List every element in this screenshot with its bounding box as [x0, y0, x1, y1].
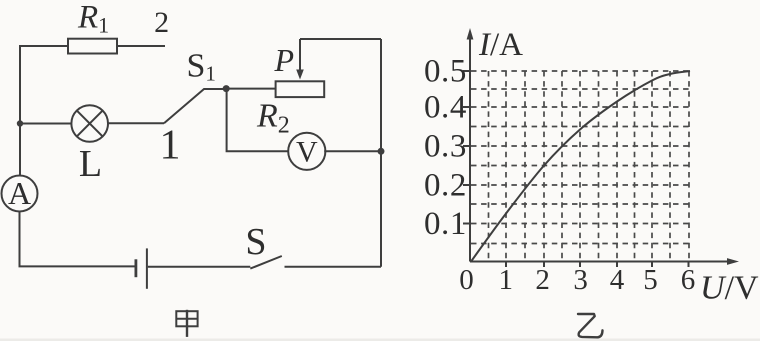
svg-text:A: A	[8, 175, 31, 211]
svg-text:1: 1	[498, 264, 513, 296]
resistor R1	[68, 39, 117, 54]
ammeter A	[2, 175, 38, 212]
svg-text:0.2: 0.2	[424, 168, 467, 204]
wire: top-left corner + left vertical branch	[20, 46, 68, 176]
rheostat slider P arrow	[296, 39, 304, 80]
wire: voltmeter to right branch	[324, 150, 381, 152]
y tick labels 0.5-0.1	[424, 54, 467, 243]
battery	[136, 248, 147, 288]
switch S	[250, 256, 281, 269]
I-U curve	[471, 71, 690, 262]
svg-text:V: V	[296, 135, 318, 168]
svg-text:3: 3	[573, 264, 588, 296]
svg-text:0.1: 0.1	[424, 206, 467, 242]
label jia (甲)	[176, 310, 197, 337]
svg-text:S: S	[245, 221, 266, 263]
svg-text:I/A: I/A	[478, 27, 523, 63]
svg-text:5: 5	[643, 264, 658, 296]
graph grid (dashed)	[471, 71, 690, 261]
svg-text:0.5: 0.5	[424, 54, 467, 90]
node: voltmeter junction on right branch	[378, 148, 385, 155]
y-axis (I) with arrow	[467, 28, 474, 262]
wire: ammeter to bottom-left corner to battery	[20, 211, 136, 266]
y-axis ticks	[463, 71, 470, 224]
svg-text:P: P	[274, 42, 295, 78]
svg-text:2: 2	[535, 264, 550, 296]
wire: node S1 down and to voltmeter	[227, 89, 289, 152]
wire: right vertical branch	[380, 39, 382, 267]
svg-text:1: 1	[160, 123, 181, 169]
svg-text:0.3: 0.3	[424, 129, 467, 165]
wire: node S1 to rheostat R2	[226, 88, 275, 90]
wire: switch to bottom-right corner	[285, 266, 382, 268]
x-axis ticks	[506, 262, 689, 268]
voltmeter V	[288, 133, 325, 170]
svg-text:L: L	[79, 143, 102, 185]
svg-text:4: 4	[610, 264, 625, 296]
svg-text:0: 0	[459, 264, 474, 296]
switch S1 blade	[164, 89, 223, 123]
svg-text:U/V: U/V	[700, 270, 759, 307]
wire: battery to switch S	[148, 266, 251, 268]
node: lamp junction	[17, 120, 23, 126]
svg-text:0.4: 0.4	[424, 90, 467, 126]
wire: junction to lamp	[20, 123, 71, 125]
wire: lamp to contact 1	[108, 122, 164, 124]
label yi (乙)	[578, 314, 603, 337]
wire: R1 right lead to contact 2	[117, 45, 165, 47]
svg-text:2: 2	[154, 6, 169, 39]
x tick labels 0-6	[459, 264, 695, 296]
lamp L	[71, 105, 108, 142]
x-axis (U) with arrow	[470, 258, 739, 265]
node S1	[223, 85, 230, 92]
rheostat R2	[276, 81, 325, 97]
wire: top wire to slider	[300, 38, 381, 40]
svg-text:6: 6	[681, 264, 696, 296]
